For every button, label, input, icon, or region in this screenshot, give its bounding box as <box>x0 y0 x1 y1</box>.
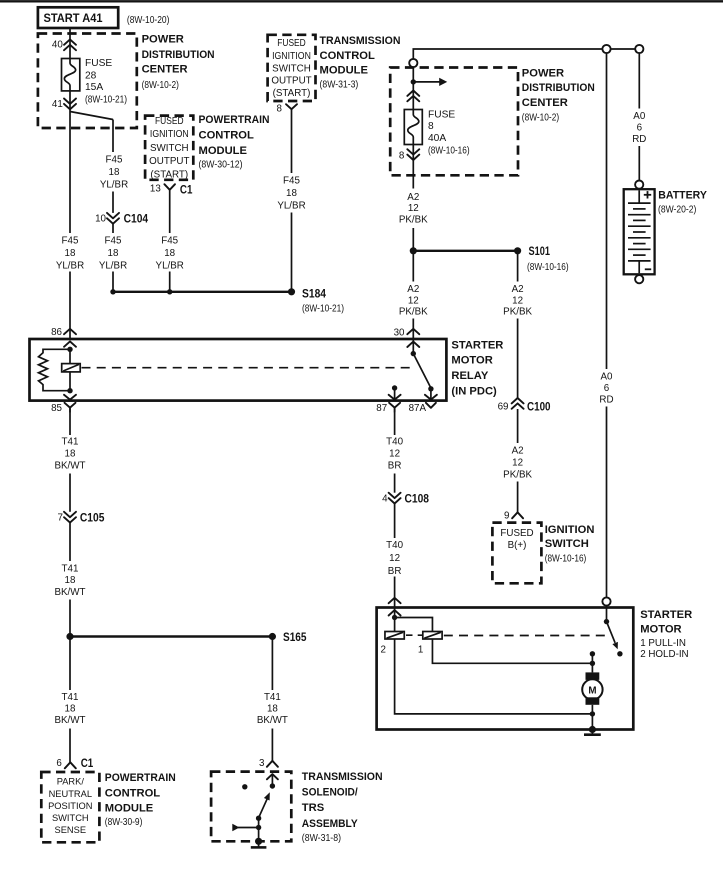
svg-text:FUSED: FUSED <box>155 116 184 127</box>
starter ground node <box>589 726 596 733</box>
relay coil resistor <box>39 349 71 390</box>
svg-text:PK/BK: PK/BK <box>503 470 532 481</box>
svg-text:F45: F45 <box>283 176 300 187</box>
svg-text:MODULE: MODULE <box>320 64 369 76</box>
svg-text:40: 40 <box>52 39 63 50</box>
connector C105 <box>58 510 105 524</box>
label A2 12 PK/BK <box>503 284 532 317</box>
svg-text:A2: A2 <box>407 284 419 295</box>
wire coil 1 to motor node <box>432 639 592 663</box>
svg-text:YL/BR: YL/BR <box>100 180 128 191</box>
label T40 12 BR <box>386 436 403 471</box>
svg-text:A2: A2 <box>407 192 419 203</box>
wire 87A stub <box>430 389 432 401</box>
wire START A41 to fuse 28 <box>69 28 71 59</box>
starter switch contact <box>617 651 622 656</box>
svg-text:1: 1 <box>418 644 423 655</box>
starter motor relay box <box>30 339 447 401</box>
wire S165 to TRS pin 3 <box>271 637 273 691</box>
svg-text:9: 9 <box>504 510 509 521</box>
svg-text:CONTROL: CONTROL <box>199 130 254 142</box>
pin 9 ignition switch <box>504 510 523 521</box>
ignition switch box (fused B+) <box>492 523 541 584</box>
splice S184 junction line <box>113 291 292 293</box>
label POWER DISTRIBUTION CENTER (8W-10-2) <box>522 67 595 123</box>
wire S101 to C100 <box>517 251 519 282</box>
svg-text:(8W-20-2): (8W-20-2) <box>658 205 696 216</box>
svg-text:YL/BR: YL/BR <box>277 201 305 212</box>
terminal circle at starter <box>602 597 610 605</box>
svg-text:C100: C100 <box>527 399 551 413</box>
svg-text:BATTERY: BATTERY <box>658 190 707 202</box>
svg-text:30: 30 <box>394 328 405 339</box>
svg-text:A2: A2 <box>512 445 524 456</box>
solenoid coil 1 (pull-in) <box>418 632 442 656</box>
wire relay 85 to C105 <box>69 412 71 435</box>
svg-text:NEUTRAL: NEUTRAL <box>49 789 92 799</box>
TRS position pointer <box>232 824 258 831</box>
terminal circle battery feed <box>635 45 643 53</box>
svg-text:18: 18 <box>108 248 119 259</box>
TRS ground node <box>255 838 262 845</box>
svg-text:18: 18 <box>164 248 175 259</box>
value label FUSE 8 40A (8W-10-16) <box>428 109 470 156</box>
pin 87 exit <box>376 395 400 414</box>
svg-text:TRS: TRS <box>302 802 325 814</box>
svg-text:IGNITION: IGNITION <box>150 129 189 140</box>
svg-text:18: 18 <box>65 448 76 459</box>
label A2 12 PK/BK <box>503 445 532 480</box>
label T41 18 BK/WT <box>54 692 85 726</box>
svg-text:FUSED: FUSED <box>500 528 533 539</box>
TRS entry chevron <box>267 774 278 779</box>
svg-text:(8W-10-20): (8W-10-20) <box>127 15 169 26</box>
wire fuse 28 to relay pin 86 <box>69 91 71 233</box>
arrow tap <box>413 78 447 86</box>
svg-text:BR: BR <box>388 460 402 471</box>
svg-text:SWITCH: SWITCH <box>272 64 311 75</box>
pin 86 <box>51 327 76 347</box>
power distribution center box 2 <box>390 68 518 176</box>
svg-text:18: 18 <box>109 167 120 178</box>
svg-text:BK/WT: BK/WT <box>54 587 85 598</box>
TRS free contact <box>242 784 247 789</box>
svg-text:IGNITION: IGNITION <box>272 51 311 62</box>
svg-text:13: 13 <box>150 184 161 195</box>
ground <box>251 841 267 847</box>
svg-text:MODULE: MODULE <box>199 145 248 157</box>
ground bus node <box>590 711 595 716</box>
svg-text:A2: A2 <box>512 284 524 295</box>
svg-text:YL/BR: YL/BR <box>156 261 184 272</box>
label STARTER MOTOR RELAY (IN PDC) <box>451 339 503 397</box>
svg-text:2 HOLD-IN: 2 HOLD-IN <box>640 649 688 660</box>
relay coil node top <box>67 347 72 352</box>
wire pin 30 to switch <box>412 339 414 354</box>
svg-text:(8W-10-16): (8W-10-16) <box>545 553 587 564</box>
svg-text:18: 18 <box>286 188 297 199</box>
wire motor to ground <box>591 705 593 730</box>
svg-text:(START): (START) <box>150 169 188 180</box>
wire C1 pin 13 to S184 <box>169 190 171 233</box>
svg-text:T41: T41 <box>62 692 79 703</box>
svg-text:A0: A0 <box>633 111 646 122</box>
svg-text:6: 6 <box>637 123 643 134</box>
svg-text:15A: 15A <box>85 82 103 93</box>
relay coil node bottom <box>67 388 72 393</box>
svg-text:FUSE: FUSE <box>85 58 112 69</box>
svg-text:F45: F45 <box>161 236 178 247</box>
svg-text:DISTRIBUTION: DISTRIBUTION <box>142 49 215 61</box>
terminal circle on feed wire <box>602 45 610 53</box>
svg-text:TRANSMISSION: TRANSMISSION <box>320 35 401 47</box>
starter entry chevrons <box>389 598 401 616</box>
fuse F8 <box>404 110 422 145</box>
powertrain control module box (fused ignition switch output) <box>145 116 193 181</box>
svg-text:6: 6 <box>604 383 610 394</box>
pin 3 connector <box>259 758 278 769</box>
top feed wire from PDC to battery <box>413 49 639 59</box>
pin 40 connector chevrons <box>52 39 76 50</box>
svg-text:YL/BR: YL/BR <box>56 261 84 272</box>
svg-text:RELAY: RELAY <box>451 370 488 382</box>
svg-text:C104: C104 <box>124 211 149 225</box>
label IGNITION SWITCH (8W-10-16) <box>545 524 595 565</box>
junction dot <box>66 633 73 640</box>
wire branch diagonal to C104 column <box>70 112 113 120</box>
svg-text:6: 6 <box>56 758 62 769</box>
wire blade to lower node <box>258 818 260 842</box>
svg-text:C108: C108 <box>405 491 430 505</box>
svg-text:T41: T41 <box>264 692 281 703</box>
svg-text:T41: T41 <box>62 436 79 447</box>
TRS contact node <box>270 783 275 788</box>
svg-text:B(+): B(+) <box>508 540 527 551</box>
pin 87A exit <box>409 395 437 414</box>
svg-text:SENSE: SENSE <box>55 825 87 835</box>
svg-text:12: 12 <box>512 457 523 468</box>
node START A41 label box <box>38 7 170 28</box>
page top border <box>0 0 723 2</box>
svg-text:F45: F45 <box>105 236 122 247</box>
svg-text:86: 86 <box>51 327 62 338</box>
svg-text:PK/BK: PK/BK <box>399 214 428 225</box>
svg-text:(START): (START) <box>273 88 311 99</box>
junction dot <box>110 289 115 294</box>
solenoid coil 2 (hold-in) <box>381 632 405 656</box>
svg-text:4: 4 <box>382 494 388 505</box>
svg-text:S165: S165 <box>283 630 307 644</box>
label STARTER MOTOR 1 PULL-IN 2 HOLD-IN <box>640 609 692 660</box>
ground <box>584 730 601 735</box>
svg-text:POWERTRAIN: POWERTRAIN <box>105 772 176 784</box>
svg-text:TRANSMISSION: TRANSMISSION <box>302 771 383 783</box>
svg-text:(8W-10-2): (8W-10-2) <box>142 80 179 91</box>
svg-text:M: M <box>588 685 596 696</box>
svg-text:F45: F45 <box>106 155 123 166</box>
label F45 18 YL/BR <box>56 236 84 272</box>
svg-text:SWITCH: SWITCH <box>150 143 189 154</box>
label F45 18 YL/BR <box>99 236 127 272</box>
motor node <box>590 661 595 666</box>
svg-text:(8W-10-16): (8W-10-16) <box>428 145 470 156</box>
label T41 18 BK/WT <box>54 564 85 598</box>
svg-text:(8W-31-3): (8W-31-3) <box>320 80 359 91</box>
junction dot <box>167 289 172 294</box>
svg-text:YL/BR: YL/BR <box>99 261 127 272</box>
svg-text:ASSEMBLY: ASSEMBLY <box>302 818 358 830</box>
svg-text:A0: A0 <box>601 372 614 383</box>
connector C108 <box>382 491 429 505</box>
label T41 18 BK/WT <box>257 692 288 726</box>
svg-text:DISTRIBUTION: DISTRIBUTION <box>522 82 595 94</box>
svg-text:12: 12 <box>389 448 400 459</box>
label POWERTRAIN CONTROL MODULE (8W-30-9) <box>105 772 176 828</box>
transmission solenoid TRS assembly box <box>211 772 291 842</box>
wire coil 2 to ground bus <box>395 639 593 714</box>
relay contact 87 node <box>392 385 397 390</box>
motor feed contact <box>590 651 595 656</box>
pin 8 of TCM <box>277 103 297 114</box>
svg-text:C105: C105 <box>80 510 105 524</box>
label A0 6 RD <box>632 111 646 145</box>
svg-text:(8W-10-16): (8W-10-16) <box>527 262 569 273</box>
svg-text:(8W-10-21): (8W-10-21) <box>85 95 127 106</box>
pin 85 exit <box>51 395 76 414</box>
splice S101 junction line <box>413 250 517 252</box>
wire fuse 8 to S101 and relay pin 30 <box>412 145 414 189</box>
splice S165 <box>269 630 307 644</box>
wire circle to junction <box>412 67 414 109</box>
wire battery drop <box>638 53 640 108</box>
svg-text:12: 12 <box>408 203 419 214</box>
starter motor box <box>377 608 634 730</box>
svg-text:OUTPUT: OUTPUT <box>149 156 189 167</box>
svg-text:IGNITION: IGNITION <box>545 524 595 536</box>
TRS blade pivot node <box>256 816 261 821</box>
svg-text:87: 87 <box>376 403 387 414</box>
label T41 18 BK/WT <box>54 436 85 471</box>
svg-text:POWERTRAIN: POWERTRAIN <box>199 114 270 126</box>
svg-text:S101: S101 <box>529 244 551 258</box>
svg-text:(8W-30-9): (8W-30-9) <box>105 817 143 828</box>
pin 6 connector C1 <box>56 756 93 770</box>
motor M <box>582 672 602 704</box>
wire C108 to starter motor <box>394 504 396 539</box>
svg-text:PK/BK: PK/BK <box>503 307 532 318</box>
svg-text:BK/WT: BK/WT <box>54 715 85 726</box>
svg-text:28: 28 <box>85 70 97 81</box>
wire pin 3 into TRS <box>271 774 273 786</box>
svg-text:3: 3 <box>259 758 265 769</box>
svg-text:8: 8 <box>428 121 434 132</box>
svg-text:POWER: POWER <box>142 34 184 46</box>
connector C104 <box>95 211 148 225</box>
svg-text:BK/WT: BK/WT <box>54 460 85 471</box>
svg-text:C1: C1 <box>180 182 193 196</box>
svg-text:STARTER: STARTER <box>640 609 692 621</box>
svg-text:1 PULL-IN: 1 PULL-IN <box>640 638 686 649</box>
label T40 12 BR <box>386 540 403 577</box>
relay coil symbol <box>62 364 80 372</box>
svg-text:MOTOR: MOTOR <box>640 624 681 636</box>
wire TCM pin 8 to S184 <box>291 109 293 173</box>
svg-text:C1: C1 <box>81 756 94 770</box>
splice S101 <box>514 244 569 273</box>
pin 30 <box>394 328 420 347</box>
svg-text:START A41: START A41 <box>44 12 104 25</box>
terminal circle at PDC 2 <box>409 59 417 67</box>
connector C100 <box>498 398 551 413</box>
relay contact 87A node <box>428 386 433 391</box>
svg-text:FUSE: FUSE <box>428 109 455 120</box>
wire C100 to ignition switch <box>517 409 519 443</box>
svg-text:69: 69 <box>498 402 509 413</box>
wire relay 87 to C108 <box>394 412 396 435</box>
park/neutral position switch sense box <box>41 772 99 842</box>
battery <box>624 181 655 284</box>
svg-text:85: 85 <box>51 403 62 414</box>
svg-text:T40: T40 <box>386 436 403 447</box>
svg-text:FUSED: FUSED <box>277 38 306 49</box>
svg-text:18: 18 <box>65 575 76 586</box>
PDC2 entry chevrons <box>407 91 419 102</box>
svg-text:8: 8 <box>277 103 283 114</box>
label A2 12 PK/BK <box>399 284 428 317</box>
wire contact to motor <box>591 654 593 673</box>
svg-text:BR: BR <box>388 566 402 577</box>
svg-text:41: 41 <box>52 99 63 110</box>
label TRANSMISSION SOLENOID/ TRS ASSEMBLY (8W-31-8) <box>302 771 383 844</box>
svg-text:18: 18 <box>65 248 76 259</box>
svg-text:CONTROL: CONTROL <box>105 787 160 799</box>
dashed linkage between coils <box>406 634 422 636</box>
label BATTERY (8W-20-2) <box>658 190 707 216</box>
label F45 18 YL/BR <box>100 155 128 191</box>
svg-text:MOTOR: MOTOR <box>451 355 492 367</box>
svg-text:T40: T40 <box>386 540 403 551</box>
relay coil wire <box>69 349 71 390</box>
svg-text:POWER: POWER <box>522 67 564 79</box>
svg-text:CENTER: CENTER <box>522 97 568 109</box>
svg-text:12: 12 <box>512 295 523 306</box>
value label FUSE 28 15A (8W-10-21) <box>85 58 127 106</box>
wire C104 to S184 <box>112 224 114 233</box>
svg-text:POSITION: POSITION <box>48 801 92 811</box>
label POWERTRAIN CONTROL MODULE (8W-30-12) <box>199 114 270 170</box>
pin 41 connector chevrons <box>52 99 76 110</box>
TRS lower node <box>256 825 261 830</box>
relay switch blade <box>413 354 431 388</box>
svg-text:STARTER: STARTER <box>451 339 503 351</box>
svg-text:BK/WT: BK/WT <box>257 715 288 726</box>
starter switch feed node <box>604 619 609 624</box>
label A2 12 PK/BK <box>399 192 428 225</box>
svg-text:(8W-10-21): (8W-10-21) <box>302 304 344 315</box>
svg-text:8: 8 <box>399 151 405 162</box>
svg-text:PARK/: PARK/ <box>57 776 85 786</box>
label F45 18 YL/BR <box>277 176 305 212</box>
dashed linkage coil 1 to switch <box>444 635 611 637</box>
wire F45 column to C104 <box>112 120 114 153</box>
relay switch common node <box>411 351 416 356</box>
transmission control module box (fused ignition switch output start) <box>268 35 316 101</box>
svg-text:RD: RD <box>632 134 646 145</box>
power distribution center box 1 <box>38 34 137 129</box>
label POWER DISTRIBUTION CENTER (8W-10-2) <box>142 34 215 91</box>
svg-text:18: 18 <box>65 703 76 714</box>
svg-text:40A: 40A <box>428 133 446 144</box>
label A0 6 RD <box>599 372 613 406</box>
starter switch blade with arrow <box>607 622 618 650</box>
svg-text:7: 7 <box>58 513 63 524</box>
svg-text:PK/BK: PK/BK <box>399 307 428 318</box>
wire battery feed A0 right side <box>606 53 608 369</box>
svg-text:10: 10 <box>95 214 106 225</box>
svg-text:RD: RD <box>599 394 613 405</box>
svg-text:SWITCH: SWITCH <box>545 538 589 550</box>
svg-text:SOLENOID/: SOLENOID/ <box>302 787 358 799</box>
splice S184 <box>288 287 344 315</box>
svg-text:2: 2 <box>381 644 386 655</box>
svg-text:12: 12 <box>408 295 419 306</box>
svg-text:OUTPUT: OUTPUT <box>271 75 311 86</box>
svg-text:CONTROL: CONTROL <box>320 50 375 62</box>
connector C1 pin 13 <box>150 182 193 196</box>
fuse F28 <box>62 59 80 91</box>
svg-text:12: 12 <box>389 553 400 564</box>
svg-text:18: 18 <box>267 703 278 714</box>
svg-text:MODULE: MODULE <box>105 803 154 815</box>
wire node to coil 2 <box>394 618 396 632</box>
wire S165 to PCM pin 6 <box>69 637 71 691</box>
svg-text:CENTER: CENTER <box>142 64 188 76</box>
wire node to coil 1 <box>395 618 433 632</box>
svg-text:F45: F45 <box>62 236 79 247</box>
svg-text:SWITCH: SWITCH <box>52 813 89 823</box>
junction dot with arrow tap <box>411 79 416 84</box>
solenoid feed node <box>392 615 397 620</box>
pin 8 exit chevrons <box>399 149 419 161</box>
TRS switch blade with arrow <box>259 792 270 818</box>
wire terminal to switch <box>606 606 608 622</box>
svg-text:(8W-10-2): (8W-10-2) <box>522 112 559 123</box>
svg-text:T41: T41 <box>62 564 79 575</box>
relay armature dashed linkage <box>82 367 412 369</box>
label F45 18 YL/BR <box>156 236 184 272</box>
label TRANSMISSION CONTROL MODULE (8W-31-3) <box>320 35 401 91</box>
junction dot <box>410 247 417 254</box>
svg-text:S184: S184 <box>302 287 326 301</box>
wire 87 stub <box>394 388 396 401</box>
svg-text:(IN PDC): (IN PDC) <box>451 386 497 398</box>
splice S165 junction line <box>70 635 272 637</box>
svg-text:(8W-30-12): (8W-30-12) <box>199 159 243 170</box>
wire C105 to S165 <box>69 523 71 561</box>
svg-text:87A: 87A <box>409 403 427 414</box>
svg-text:(8W-31-8): (8W-31-8) <box>302 833 341 844</box>
